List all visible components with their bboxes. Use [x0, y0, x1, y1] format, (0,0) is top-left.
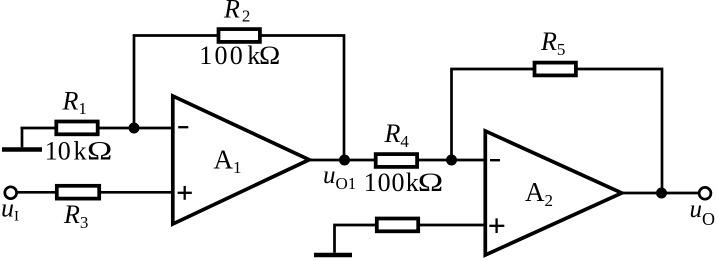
svg-text:100: 100 — [199, 41, 245, 70]
resistor R1 — [56, 122, 97, 135]
wire: R5 right down to A2 output node — [576, 69, 662, 193]
svg-text:R1: R1 — [62, 87, 87, 119]
terminal uO — [699, 187, 711, 199]
svg-text:R2: R2 — [223, 0, 250, 26]
svg-text:R3: R3 — [63, 200, 88, 232]
resistor R2 — [219, 29, 260, 42]
node: inverting input junction — [129, 123, 140, 134]
svg-text:100: 100 — [364, 168, 406, 197]
svg-text:10: 10 — [45, 137, 71, 166]
ground (at A2 non-inverting input) — [314, 253, 352, 258]
ground (at R1 input) — [2, 128, 42, 150]
resistor R3 — [57, 186, 99, 199]
svg-text:Ω: Ω — [418, 168, 444, 197]
wire: R4 to A2 inverting input — [418, 159, 486, 162]
label A2 minus — [490, 159, 500, 161]
svg-text:uO1: uO1 — [323, 162, 356, 193]
op-amp A1 — [173, 96, 309, 224]
svg-text:uI: uI — [1, 194, 19, 225]
svg-text:Ω: Ω — [87, 136, 112, 165]
wire: R6 left down to ground — [335, 225, 378, 253]
resistor R5 — [535, 63, 576, 76]
svg-text:Ω: Ω — [259, 41, 280, 70]
resistor R4 — [376, 154, 417, 167]
op-amp A2 — [485, 131, 621, 255]
terminal uI — [5, 187, 17, 199]
node: output junction — [656, 188, 667, 199]
wire: R6 to A2 non-inverting input — [418, 224, 486, 227]
wire: A2 output to uO terminal — [621, 192, 698, 195]
svg-text:uO: uO — [690, 196, 716, 229]
wire: A1 output to R4 — [308, 159, 377, 162]
wire: R1 to A1 inverting input — [97, 127, 173, 130]
node: uO1 junction — [339, 155, 350, 166]
svg-text:R5: R5 — [540, 27, 565, 59]
wire: ground to R1 — [21, 127, 58, 130]
label A1 plus — [178, 186, 192, 200]
label A1 minus — [178, 126, 188, 128]
wire: feedback loop up-left to R2 — [134, 36, 219, 128]
wire: R2 right down to output node — [260, 36, 344, 161]
resistor R6 (A2 non-inverting bias) — [377, 219, 418, 232]
node: A2 inverting junction — [446, 155, 457, 166]
wire: feedback loop up to R5 — [452, 69, 536, 159]
wire: uI to R3 — [17, 191, 59, 194]
wire: R3 to A1 non-inverting input — [99, 191, 173, 194]
svg-text:R4: R4 — [384, 119, 410, 151]
svg-text:k: k — [74, 137, 87, 166]
label A2 plus — [489, 218, 504, 233]
svg-text:k: k — [406, 168, 419, 197]
